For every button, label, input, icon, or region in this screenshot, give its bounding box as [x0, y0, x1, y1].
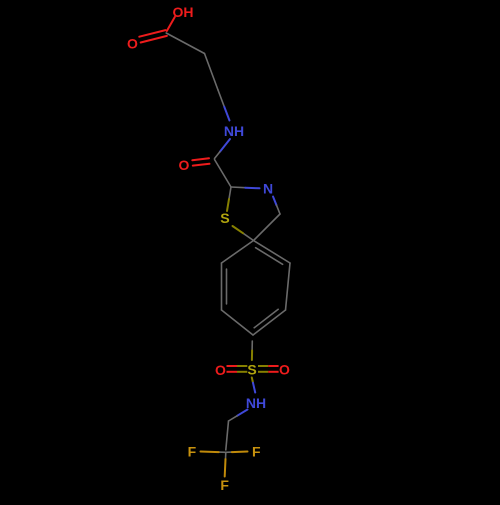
thiazole bond N3-C4: [273, 197, 280, 215]
double bond S=O (left): [227, 366, 248, 372]
bond CH2 - CF3 carbon: [226, 421, 229, 450]
thiazole bond C2-S1: [227, 187, 231, 211]
svg-text:O: O: [127, 36, 138, 52]
bond CH2 - amide N: [218, 90, 230, 121]
benzene edge C4-C5: [222, 310, 254, 335]
bond C-F (left): [201, 451, 226, 454]
bond sulfonamide N - CH2: [229, 410, 248, 422]
svg-text:N: N: [263, 181, 273, 197]
benzene inner aromatic line (C1-C2): [256, 248, 283, 265]
svg-text:O: O: [215, 362, 226, 378]
benzene edge C5-C6: [221, 263, 223, 310]
svg-text:S: S: [247, 362, 256, 378]
bond S - sulfonamide N: [252, 378, 255, 393]
benzene edge C1-C2: [254, 241, 291, 264]
thiazole bond C2-N3: [231, 187, 260, 188]
bond C-F (bottom): [225, 452, 226, 476]
svg-text:F: F: [252, 443, 261, 459]
bond carbonyl C - thiazole C2: [215, 160, 232, 188]
svg-text:S: S: [220, 211, 229, 227]
benzene edge C6-C1: [222, 241, 254, 264]
svg-text:O: O: [279, 362, 290, 378]
thiazole bond C5-S1: [233, 226, 254, 241]
svg-text:F: F: [188, 443, 197, 459]
benzene edge C3-C4: [253, 310, 286, 335]
double bond C=O (acid): [139, 30, 167, 42]
bond acid C - CH2: [166, 33, 204, 54]
double bond S=O (right): [258, 366, 279, 372]
bond C-F (right): [226, 451, 248, 454]
double bond C=O (amide): [192, 158, 209, 165]
svg-text:O: O: [179, 157, 190, 173]
benzene inner aromatic line (C3-C4): [254, 309, 278, 328]
bond phenyl C4 - sulfonyl S: [251, 341, 253, 360]
svg-text:NH: NH: [224, 123, 244, 139]
svg-text:NH: NH: [246, 395, 266, 411]
benzene edge C2-C3: [286, 263, 291, 310]
bond CH2 - CH2: [205, 54, 219, 91]
svg-text:F: F: [220, 477, 229, 493]
benzene inner aromatic line (C5-C6): [226, 269, 228, 304]
thiazole bond C4-C5: [254, 214, 281, 241]
bond C-OH: [167, 17, 175, 31]
bond amide N - carbonyl C: [215, 139, 231, 159]
